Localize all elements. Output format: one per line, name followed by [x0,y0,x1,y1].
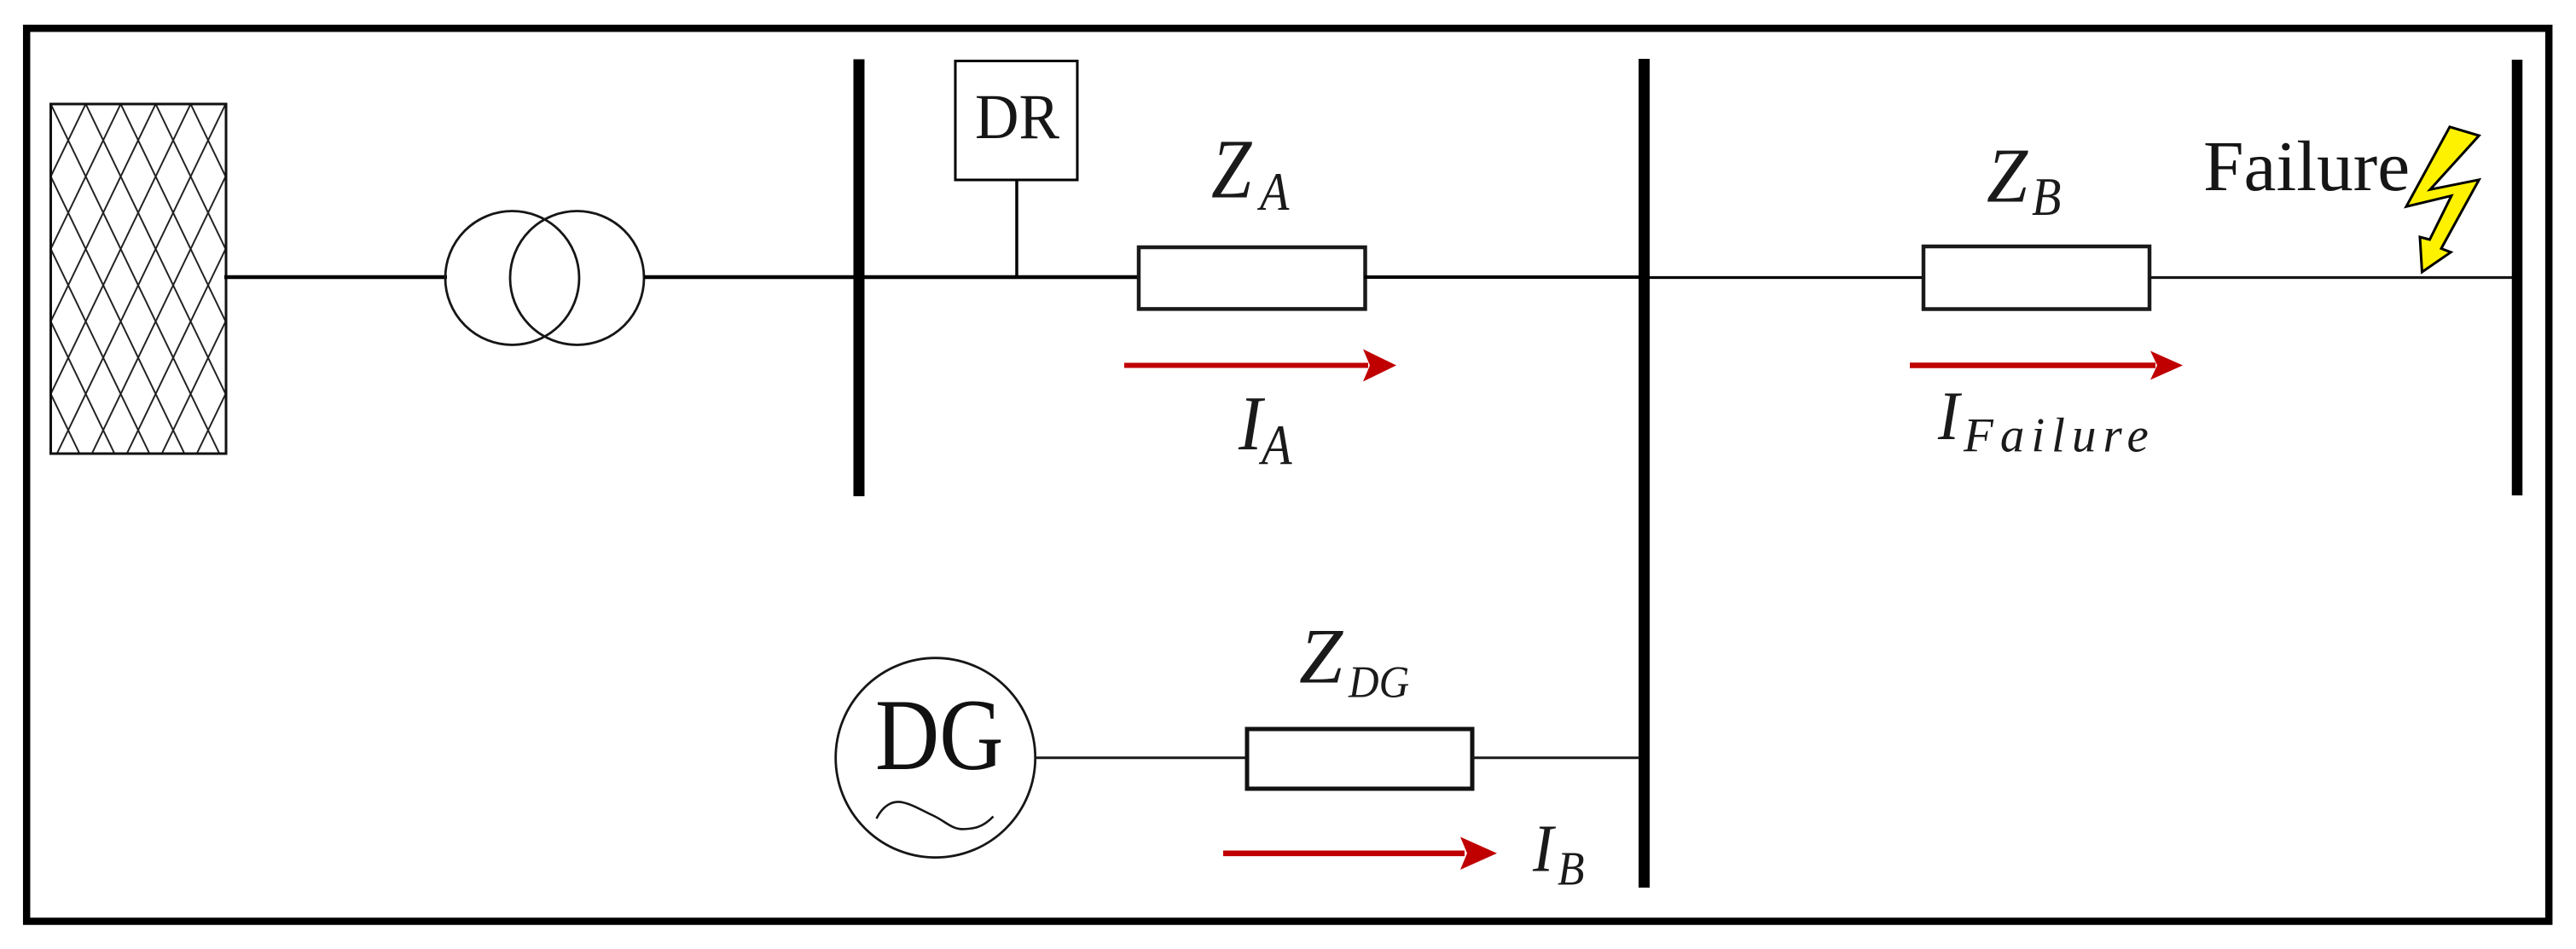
transformer T1 [445,211,644,345]
bus 2 [1639,59,1650,888]
bus 1 [854,60,865,497]
generator DG circle [836,658,1036,858]
impedance Z_B box [1923,246,2150,310]
wire grid to transformer [224,275,447,280]
svg-text:Z: Z [1987,134,2029,219]
wire Z_DG to bus 2 [1472,756,1639,759]
svg-text:DR: DR [975,81,1059,152]
svg-text:B: B [1558,842,1584,895]
svg-text:A: A [1258,413,1292,477]
failure lightning bolt [2406,127,2479,272]
current arrow I_B [1223,837,1497,871]
relay DR box [955,61,1077,181]
current arrow I_A [1124,350,1396,382]
label Z_A [1211,122,1291,223]
label I_A [1238,380,1292,477]
impedance Z_DG box [1247,729,1472,789]
svg-text:I: I [1532,812,1557,886]
wire transformer to bus 1 [644,275,854,280]
generator sine wave [877,801,994,829]
grid source G (external network) [51,104,227,454]
impedance Z_A box [1139,247,1366,309]
wire DR stub [1015,180,1018,277]
label Z_DG [1299,613,1409,708]
wire bus 2 to Z_B [1650,276,1925,279]
wire bus 1 to Z_A [864,275,1140,280]
svg-text:B: B [2032,167,2061,228]
svg-text:Failure: Failure [1963,409,2155,463]
current arrow I_Failure [1910,351,2183,380]
svg-text:DG: DG [875,679,1003,791]
label Z_B [1987,134,2061,228]
svg-text:A: A [1256,162,1290,223]
svg-text:Z: Z [1211,122,1253,217]
svg-text:DG: DG [1348,657,1409,708]
svg-text:Z: Z [1299,613,1343,700]
svg-text:Failure: Failure [2203,127,2410,206]
wire DG to Z_DG [1036,756,1250,759]
svg-text:I: I [1937,378,1963,455]
wire Z_A to bus 2 [1364,275,1639,279]
label I_B [1532,812,1584,896]
label I_Failure [1937,378,2155,462]
wire Z_B to bus 3 [2149,276,2513,279]
bus 3 [2512,60,2523,495]
